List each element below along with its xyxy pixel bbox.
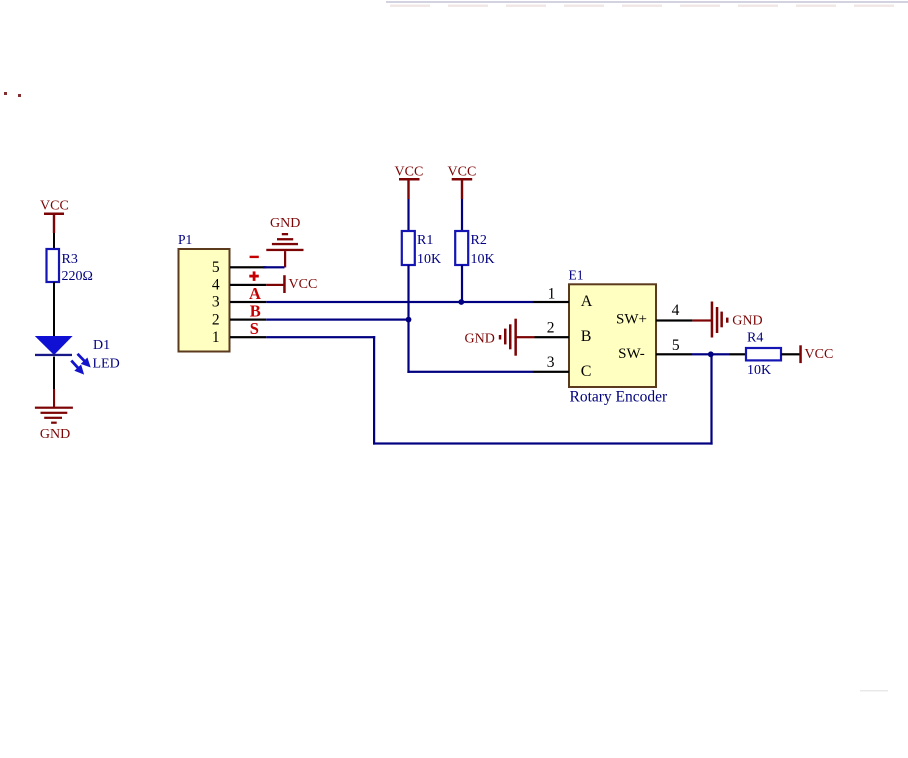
svg-text:10K: 10K	[747, 363, 771, 378]
svg-text:3: 3	[547, 354, 555, 371]
svg-text:VCC: VCC	[448, 165, 477, 180]
svg-text:C: C	[581, 363, 592, 380]
svg-text:B: B	[250, 302, 261, 321]
svg-text:VCC: VCC	[289, 277, 318, 292]
svg-text:SW+: SW+	[616, 312, 647, 328]
svg-text:A: A	[581, 293, 593, 310]
svg-text:A: A	[249, 284, 261, 303]
svg-text:GND: GND	[732, 313, 762, 328]
svg-text:4: 4	[672, 302, 680, 319]
svg-text:4: 4	[212, 277, 220, 294]
svg-text:E1: E1	[569, 268, 584, 283]
svg-text:R4: R4	[747, 330, 763, 345]
svg-text:5: 5	[212, 259, 220, 276]
svg-text:1: 1	[548, 285, 556, 302]
svg-text:GND: GND	[465, 331, 495, 346]
svg-text:R3: R3	[62, 252, 78, 267]
svg-text:R2: R2	[471, 233, 487, 248]
svg-text:10K: 10K	[471, 252, 495, 267]
svg-text:10K: 10K	[417, 252, 441, 267]
svg-text:R1: R1	[417, 233, 433, 248]
svg-text:5: 5	[672, 337, 680, 354]
svg-text:220Ω: 220Ω	[62, 269, 93, 284]
svg-text:B: B	[581, 328, 592, 345]
svg-text:2: 2	[547, 319, 555, 336]
svg-text:S: S	[250, 319, 259, 338]
svg-text:D1: D1	[93, 338, 110, 353]
svg-text:SW-: SW-	[618, 346, 645, 362]
svg-text:3: 3	[212, 294, 220, 311]
svg-text:2: 2	[212, 311, 220, 328]
svg-text:LED: LED	[93, 357, 120, 372]
svg-text:VCC: VCC	[395, 165, 424, 180]
svg-text:GND: GND	[270, 216, 300, 231]
svg-text:GND: GND	[40, 427, 70, 442]
svg-text:VCC: VCC	[40, 199, 69, 214]
svg-text:1: 1	[212, 329, 220, 346]
svg-text:P1: P1	[178, 232, 192, 247]
svg-text:VCC: VCC	[805, 347, 834, 362]
svg-text:Rotary Encoder: Rotary Encoder	[570, 389, 669, 406]
